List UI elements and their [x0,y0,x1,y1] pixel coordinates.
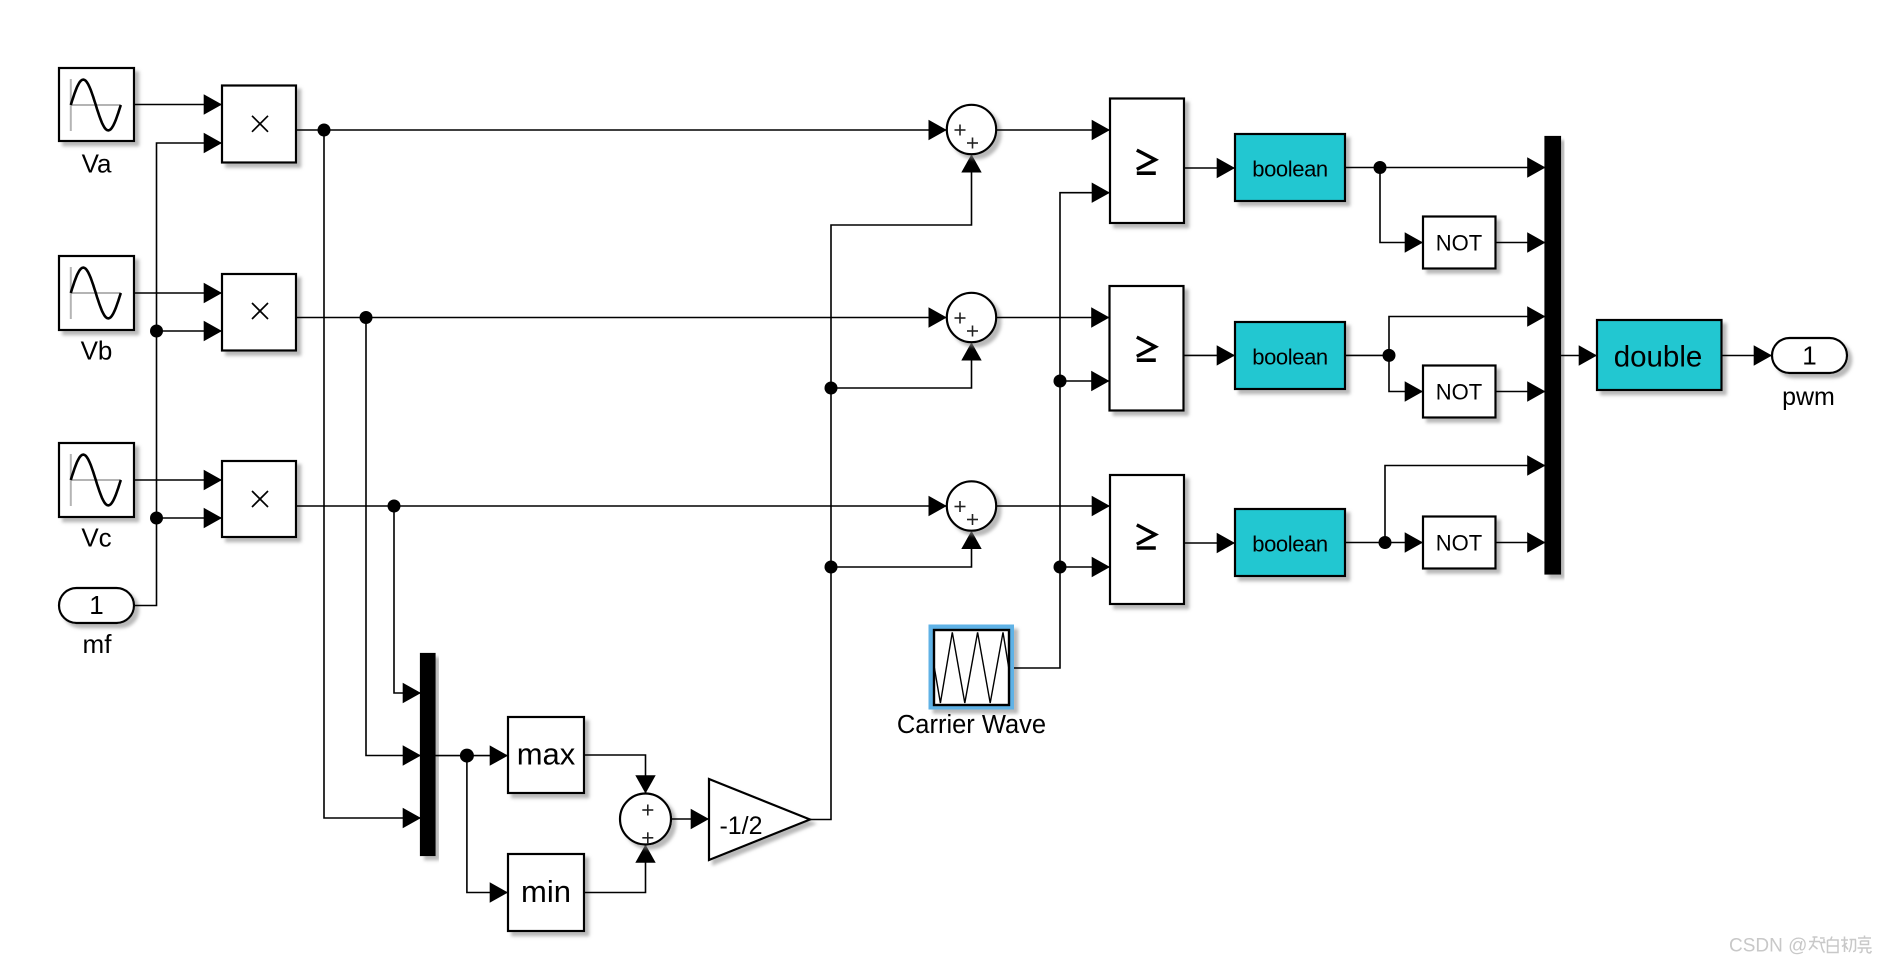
svg-text:boolean: boolean [1252,157,1328,182]
sine source Vb [59,256,134,366]
wire P1 out to sum S1 [296,120,947,140]
relational operator RO1 >= [1110,99,1184,224]
wire S2 to RO2 [996,307,1109,327]
watermark CSDN [1729,936,1872,957]
double conversion [1597,320,1722,390]
junction G1 branch to S2 [825,342,982,394]
wire S3 to RO3 [996,496,1110,516]
sum S1 [947,105,996,154]
wire B1 to mux M2 in1 [1345,157,1546,177]
mux M1 [421,654,435,855]
junction M1 out, branch to min [460,749,508,903]
wire B2 down to NOT N2 [1389,355,1423,401]
svg-text:Vb: Vb [81,336,113,366]
svg-text:double: double [1614,341,1703,374]
sum S2 [947,293,996,342]
wire S1 to RO1 [996,120,1110,140]
sum S4 [620,794,671,845]
svg-text:1: 1 [1802,341,1816,371]
junction B3, branch up to mux M2 in5 [1379,455,1546,549]
junction P2 out [360,311,422,766]
svg-text:1: 1 [89,590,103,620]
relational operator RO3 >= [1110,475,1184,604]
wire Vb to P2 [134,283,222,303]
wire S4 to gain G1 [671,809,709,829]
svg-text:pwm: pwm [1782,383,1835,411]
wire P2 out to sum S2 [296,307,947,327]
svg-text:NOT: NOT [1436,379,1482,404]
wire N2 to mux M2 in4 [1496,381,1546,401]
junction carrier to RO2 [1054,371,1110,391]
sum S3 [947,481,996,530]
junction P3 out [388,500,422,704]
wire Va to P1 [134,94,222,114]
wire min to sum S4 [584,845,656,893]
junction mf/Vb row [150,321,222,341]
svg-text:mf: mf [83,629,113,659]
wire mf to P1 in2 [134,133,222,606]
wire RO2 to boolean B2 [1184,345,1236,365]
wire Vc to P3 [134,470,222,490]
svg-text:NOT: NOT [1436,230,1482,255]
wire M1 out to max [435,745,509,765]
junction carrier to RO3 [1054,557,1111,577]
svg-text:NOT: NOT [1436,530,1482,555]
wire double to outport pwm [1722,345,1773,365]
wire RO3 to boolean B3 [1184,533,1235,553]
junction B2 [1345,349,1396,362]
sine source Vc [59,443,134,553]
product P1 [222,86,296,163]
junction mf/Vc row [150,508,222,528]
boolean conversion B2 [1235,322,1345,389]
svg-text:CSDN @: CSDN @ [1729,936,1807,957]
junction P1 out [318,124,422,829]
sine source Va [59,68,134,179]
NOT N1 [1423,217,1496,269]
wire G1 up to sum S1 [810,154,982,819]
svg-text:-1/2: -1/2 [719,812,762,840]
junction B1, branch to NOT N1 [1374,161,1424,253]
svg-text:Vc: Vc [81,523,111,553]
product P3 [222,461,296,537]
junction G1 branch to S3 [825,531,982,574]
boolean conversion B1 [1235,134,1345,201]
wire P3 out to sum S3 [296,496,947,516]
wire N1 to mux M2 in2 [1496,232,1546,252]
max block [508,717,584,793]
mux M2 [1546,137,1561,574]
wire max to sum S4 [584,755,656,794]
boolean conversion B3 [1235,509,1345,576]
svg-text:boolean: boolean [1252,345,1328,370]
min block [508,854,584,931]
svg-text:Carrier Wave: Carrier Wave [897,711,1046,739]
wire M2 to double [1560,345,1597,365]
svg-text:max: max [517,737,576,772]
NOT N2 [1423,366,1496,418]
wire B3 to NOT N3 [1345,532,1423,552]
carrier wave source [897,625,1046,740]
gain G1 -1/2 [709,779,810,860]
wire N3 to mux M2 in6 [1496,532,1546,552]
wire B2 up to mux M2 in3 [1389,306,1546,355]
svg-text:Va: Va [82,149,112,179]
inport 1 mf [59,588,134,659]
relational operator RO2 >= [1110,286,1184,411]
wire RO1 to boolean B1 [1184,158,1235,178]
svg-text:boolean: boolean [1252,532,1328,557]
NOT N3 [1423,517,1496,569]
outport 1 pwm [1772,338,1847,411]
product P2 [222,274,296,351]
svg-text:min: min [521,874,571,909]
wire carrier to RO1 [1014,183,1110,669]
